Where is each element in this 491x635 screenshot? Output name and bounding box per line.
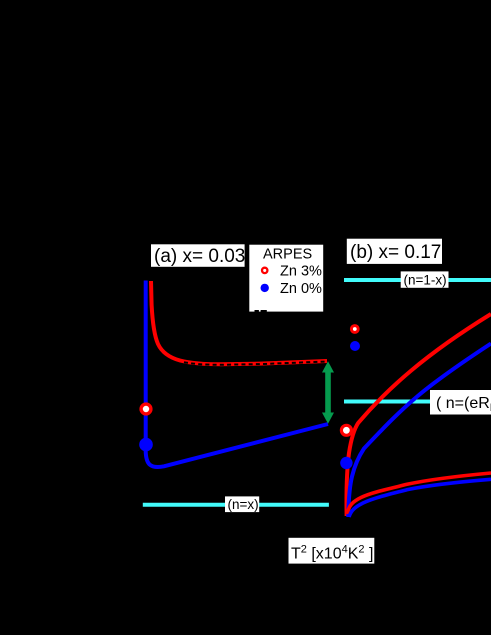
svg-text:(n=1-x): (n=1-x): [404, 272, 447, 287]
svg-text:Zn 3%: Zn 3%: [280, 263, 322, 279]
svg-text:(b) x= 0.17: (b) x= 0.17: [350, 242, 441, 263]
svg-text:(n=x): (n=x): [228, 497, 259, 512]
svg-text:(a) x= 0.03: (a) x= 0.03: [154, 246, 245, 267]
legend marker Zn 3%: [262, 268, 267, 273]
green double arrow: [322, 361, 334, 424]
red flat curve panel b: [347, 473, 491, 514]
marker red open circle panel b top: [351, 326, 358, 333]
stray marks under legend: [255, 310, 259, 312]
cyan line (n=x) panel a: [143, 503, 329, 507]
marker blue circle panel b bottom: [340, 457, 352, 469]
blue curve panel a (Zn 0%): [146, 281, 328, 467]
cyan line (n=eRH) panel b: [344, 400, 431, 404]
black dashed fit line panel a: [184, 362, 327, 365]
marker blue circle panel b top: [350, 341, 360, 351]
red steep curve panel b (Zn 3%): [347, 314, 491, 516]
marker red open circle panel a: [141, 404, 151, 414]
svg-text:ARPES: ARPES: [263, 247, 312, 263]
svg-text:( n=(eRH: ( n=(eRH: [436, 395, 491, 414]
label ( n=(eRH: [430, 390, 491, 415]
blue steep curve panel b (Zn 0%): [348, 344, 491, 518]
label (n=x): [225, 496, 259, 512]
label (a) x= 0.03: [151, 244, 245, 267]
marker blue circle panel a: [139, 438, 153, 452]
label (n=1-x): [401, 271, 449, 287]
legend box ARPES: [249, 245, 323, 313]
legend marker Zn 0%: [261, 284, 269, 292]
cyan line (n=1-x) panel b: [344, 278, 491, 282]
marker red open circle panel b bottom: [341, 425, 351, 435]
label (b) x= 0.17: [347, 239, 442, 264]
svg-text:Zn 0%: Zn 0%: [280, 281, 322, 297]
red curve panel a (Zn 3%): [151, 281, 327, 364]
axis label T^2 [x10^4 K^2]: [289, 538, 375, 564]
blue flat curve panel b: [349, 479, 491, 517]
